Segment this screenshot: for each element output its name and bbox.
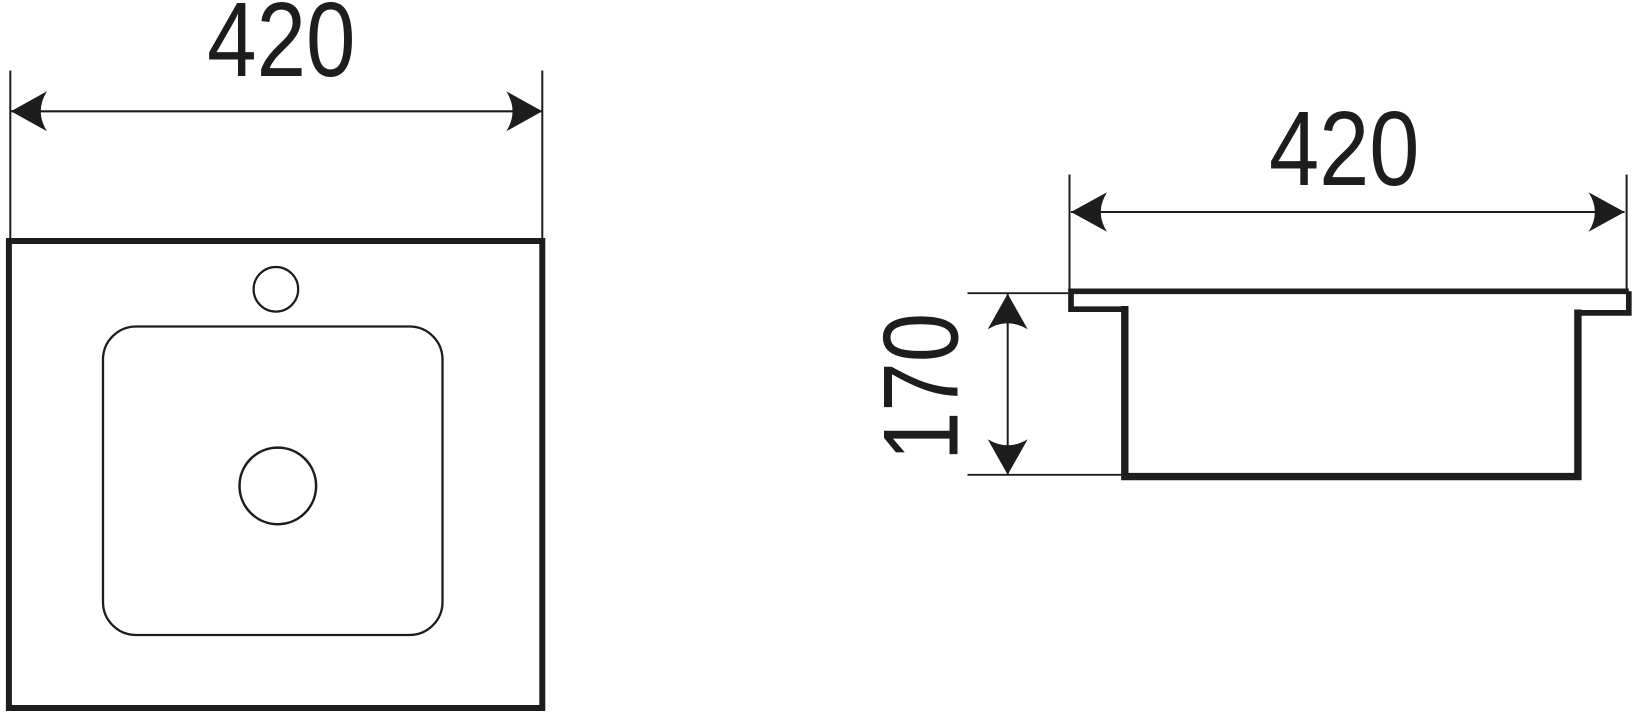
side view: rim profile: [1071, 291, 1629, 313]
side view dim 420: left arrowhead: [1071, 192, 1107, 232]
top view: outer rim square: [9, 241, 542, 708]
side view dim 170: top extension line: [968, 292, 1069, 294]
top view dim 420: right extension line: [541, 71, 543, 239]
top view: drain hole: [239, 448, 316, 525]
side view dim 170: bottom arrowhead: [988, 439, 1028, 475]
svg-text:420: 420: [207, 0, 355, 99]
top view dim 420: left extension line: [9, 71, 11, 239]
top view: basin recess rounded square: [103, 327, 443, 636]
top view dim 420: dimension line: [11, 110, 542, 112]
top view dim 420: right arrowhead: [506, 91, 542, 131]
side view dim 170: top arrowhead: [988, 294, 1028, 330]
side view dim 420: dimension line: [1071, 211, 1625, 213]
side view dim 170: bottom extension line: [968, 474, 1125, 476]
svg-text:170: 170: [861, 313, 981, 461]
svg-text:420: 420: [1269, 90, 1420, 208]
side view dim 420: left extension line: [1069, 175, 1071, 291]
side view: basin walls and bottom: [1125, 306, 1578, 477]
side view dim 420: right arrowhead: [1589, 192, 1625, 232]
top view dim 420: left arrowhead: [11, 91, 47, 131]
side view dim 170: dimension line: [1007, 294, 1009, 475]
top view: faucet hole: [254, 267, 299, 312]
side view dim 420: right extension line: [1626, 175, 1628, 291]
